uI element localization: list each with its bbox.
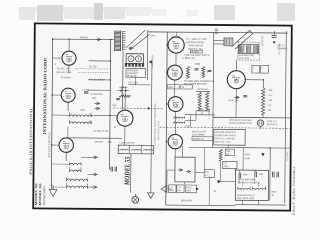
wire V1 left stub (53, 57, 62, 59)
label row b6-2 (184, 83, 207, 86)
resistor R5 voltage divider (261, 80, 265, 115)
svg-text:8MF: 8MF (243, 174, 248, 176)
capacitor C2 block (111, 167, 117, 172)
capacitor C1 (84, 92, 88, 93)
wire avc foot (185, 125, 191, 127)
wire choke mid taps (242, 182, 258, 187)
label 455KC boxed (204, 170, 214, 178)
inductor L11 voice coil (224, 38, 233, 46)
svg-text:I.F. = 456 K.C. TOP: I.F. = 456 K.C. TOP (186, 39, 207, 41)
inductor L7 antenna coil ticks (115, 31, 121, 52)
label divider taps (268, 90, 273, 112)
wire stub r3 foot (202, 108, 209, 115)
tube V2 oscillator (61, 88, 75, 102)
svg-text:PLUG 55: PLUG 55 (127, 76, 137, 78)
label above component box (119, 142, 136, 144)
label INTERNATIONAL RADIO CORPORATION vertical middle (154, 103, 157, 145)
label TRIMMER note (88, 79, 105, 82)
wire V7-V8 link (174, 112, 176, 135)
resistor R2 (202, 66, 205, 77)
wire V5 left stem (166, 44, 169, 46)
wire vertical x270.5 (269, 148, 271, 201)
capacitor C6 (243, 96, 247, 97)
svg-text:TO OSC PLATE: TO OSC PLATE (93, 130, 110, 133)
antenna symbol ground triangle bottom left (49, 185, 57, 197)
label HUM NTRL rows (239, 54, 256, 60)
label row t5-6 (184, 53, 210, 57)
svg-text:INTERNATIONAL RADIO CORPORATIO: INTERNATIONAL RADIO CORPORATION (154, 103, 157, 145)
wire stub v4 left (110, 115, 117, 117)
wire power box feed (242, 148, 244, 170)
svg-text:HUM NEUTRAL: HUM NEUTRAL (239, 54, 256, 57)
svg-text:DIAL: DIAL (151, 34, 157, 37)
svg-text:VOLTAGE READ: VOLTAGE READ (186, 41, 204, 44)
svg-text:PILOT LIGHT: PILOT LIGHT (192, 131, 207, 133)
tube V1 R.F. amp (62, 51, 76, 65)
svg-text:LT 250: LT 250 (82, 90, 90, 92)
inductor L4 (70, 169, 82, 172)
label speaker connections vertical (152, 54, 154, 67)
inductor L5 output primary (66, 178, 88, 181)
capacitor C7 electrolytic (239, 170, 241, 178)
svg-text:WITH A.C. SWITCH: WITH A.C. SWITCH (215, 137, 236, 140)
wire coil left bus links (51, 115, 70, 187)
power pack box (235, 170, 268, 200)
rectifier box B1 (175, 157, 195, 182)
wire R6 bottom (219, 161, 221, 182)
wire V9 top stem (235, 60, 237, 71)
inductor L13 choke b (252, 187, 266, 191)
wire divider bottom (262, 114, 264, 117)
svg-text:T 1490 LBS 210: T 1490 LBS 210 (119, 142, 136, 144)
node arrow under V9 (234, 96, 239, 99)
wire V2 left stub (52, 94, 61, 96)
wire dial cord diagonal 2 (129, 34, 150, 50)
wire plug stem (259, 118, 261, 129)
label 450V tiny (245, 154, 251, 160)
wire box to ground (167, 170, 175, 186)
svg-text:TO GANG: TO GANG (60, 76, 71, 79)
inductor L10 I.F. coil b (174, 121, 185, 123)
wire volume box stub (228, 145, 230, 147)
capacitor C11 small (116, 99, 120, 100)
svg-text:25M: 25M (112, 105, 116, 107)
label power box rows (238, 179, 260, 184)
node arrow tap 2 (92, 173, 97, 176)
capacitor C10 (277, 172, 279, 178)
svg-text:COIL 2700: COIL 2700 (239, 58, 250, 60)
label row t5-3 (189, 44, 204, 47)
svg-text:COIL JACK 1050: COIL JACK 1050 (237, 197, 255, 200)
wire dashed chassis mid (160, 127, 290, 128)
svg-text:100M: 100M (194, 64, 200, 66)
wire top bus drop C5 (273, 31, 275, 33)
svg-text:MAZDA 44: MAZDA 44 (193, 138, 205, 141)
label mid tiny (128, 82, 138, 84)
label box pair 2 (186, 185, 197, 193)
svg-text:SPEAKER: SPEAKER (181, 199, 193, 202)
wire V5 top stem (175, 32, 177, 37)
label AND SERIES vertical middle (157, 120, 160, 140)
label tiny candohm (196, 88, 208, 91)
wire bottom right link (204, 176, 209, 205)
svg-text:TO CH. GND: TO CH. GND (279, 42, 281, 55)
label ON VOL CON note (56, 71, 108, 74)
svg-text:6A7 G: 6A7 G (172, 36, 179, 39)
svg-text:20M: 20M (226, 151, 230, 153)
svg-text:MODEL 55: MODEL 55 (123, 156, 131, 186)
label above det line (93, 130, 110, 133)
junction dots at wire crossings (51, 38, 272, 171)
svg-text:AVC DIODE RETURN: AVC DIODE RETURN (184, 83, 207, 86)
wire vertical x131.3 (130, 154, 132, 193)
wire arrowB link (221, 181, 235, 183)
resistor R4 (205, 92, 208, 111)
label MODEL 55 big italic (123, 156, 131, 186)
inductor L12 choke a (238, 186, 250, 190)
svg-text:Schematic: Schematic (42, 185, 46, 206)
wire V1 cathode stem (68, 65, 70, 73)
wire aerial coil top link (113, 39, 115, 41)
svg-text:NTRL 250: NTRL 250 (229, 100, 240, 102)
svg-text:0.05: 0.05 (107, 142, 112, 144)
label vertical right bottom (287, 152, 289, 162)
resistor R6 (219, 149, 222, 161)
svg-text:6D6: 6D6 (168, 87, 173, 89)
label row t5-7 (182, 57, 195, 60)
svg-text:C. BIAS -3V.: C. BIAS -3V. (182, 57, 195, 60)
svg-text:L.P.: L.P. (224, 163, 228, 165)
wire left bus vertical (51, 39, 52, 189)
volume control box (214, 129, 245, 145)
svg-text:OSC: OSC (80, 110, 85, 112)
wire 455 box stem (195, 171, 204, 173)
label MODEL 55 (left bottom list) (34, 183, 38, 206)
label MODEL 66 (left bottom list) (38, 183, 42, 206)
resistor R3 (198, 92, 201, 111)
ground G1 bottom middle-left (147, 193, 154, 198)
svg-text:SPEAKER: SPEAKER (127, 69, 138, 72)
svg-text:TO SPKR: TO SPKR (287, 152, 289, 162)
wire speaker field stem (242, 200, 258, 205)
wire V2 to osc coil (67, 102, 69, 111)
tube V3 1st A.F. (59, 138, 74, 153)
svg-text:DET OSC: DET OSC (128, 82, 138, 84)
label LP box (223, 161, 237, 168)
svg-text:PAGE 8-10 INTERNATIONAL: PAGE 8-10 INTERNATIONAL (29, 106, 34, 175)
label boxed resistor values (225, 149, 234, 156)
svg-text:PART No. 7712: PART No. 7712 (215, 141, 231, 144)
label INTERNATIONAL RADIO CORP. (left column) (42, 57, 48, 134)
inductor L1 osc coil primary (69, 113, 91, 117)
label row t5-1 (186, 39, 207, 41)
label small under T1 (60, 76, 71, 79)
node arrow right of boxes (196, 187, 199, 190)
wire right section top line (189, 146, 290, 149)
inductor L9 I.F. coil a (174, 116, 185, 118)
wire B+ top bus (148, 32, 288, 33)
label small cluster left mid (90, 94, 103, 100)
wire V4 bottom stem (124, 126, 126, 145)
wire V6-V7 link (174, 80, 176, 97)
wire V4 top stem (124, 93, 126, 110)
svg-text:OUTPUT: OUTPUT (261, 35, 264, 46)
component box under V4 (118, 145, 154, 154)
svg-text:FIELD: FIELD (186, 187, 192, 189)
transformer T1 output dashed enclosure (238, 42, 260, 60)
terminal block above V4 (119, 86, 127, 92)
capacitor C5 (272, 31, 277, 38)
label SPEAKER PLUG rows (229, 119, 252, 125)
node arrow below C5 (273, 41, 276, 44)
resistor R1 (186, 66, 189, 78)
svg-text:SPEAKER FIELD: SPEAKER FIELD (237, 194, 255, 197)
svg-text:TO 1ST TR.: TO 1ST TR. (56, 67, 69, 70)
wire V1 grid stem (68, 39, 70, 51)
inductor L3 (70, 162, 82, 165)
capacitor C3 (194, 69, 198, 70)
wire chassis line right (213, 116, 290, 119)
inductor L2 osc coil secondary (69, 120, 91, 124)
svg-text:10,000 OHM TAPER: 10,000 OHM TAPER (215, 134, 236, 137)
wire middle bus vertical (166, 32, 168, 205)
label box speaker connections (126, 68, 146, 77)
label row t5-2 (186, 41, 204, 44)
svg-text:ON VOL CON: ON VOL CON (56, 71, 71, 74)
wire avc drop (190, 115, 192, 127)
wire V3 stem down (65, 152, 67, 161)
ground G2 left of box (161, 185, 171, 192)
svg-text:7660: 7660 (224, 166, 230, 168)
svg-text:2525: 2525 (271, 191, 277, 193)
loudspeaker LS1 cone (232, 30, 253, 49)
plug P2 power plug (257, 120, 263, 129)
svg-text:K.C.: K.C. (205, 175, 210, 177)
wire V9 plate right (245, 79, 263, 81)
svg-text:CANDOHM: CANDOHM (196, 88, 208, 91)
tube V7 75 2nd det (168, 97, 183, 112)
svg-text:8MF: 8MF (259, 174, 264, 176)
label V4 designator (114, 125, 116, 129)
socket X1 with pin circles (126, 54, 143, 64)
label top mid tiny (151, 34, 157, 37)
wire inner right bus (285, 31, 287, 203)
wire V3 left stub (52, 144, 59, 146)
node arrow grid return 2 (94, 107, 99, 110)
wire bottom bus right (235, 204, 286, 206)
label V1 designator (54, 62, 56, 66)
wire box stem (182, 146, 184, 157)
wire 455 feed (203, 147, 205, 169)
wire R3R4 bottom (196, 110, 210, 112)
label INTERNATIONAL (left column lower) (47, 131, 51, 157)
svg-text:WITH SET AT: WITH SET AT (189, 44, 204, 47)
label boxed pair under V6 (168, 85, 193, 89)
node arrow on aerial line (95, 38, 100, 41)
wire V7 left stub (167, 103, 169, 105)
inductor L8 antenna coil winding (122, 31, 125, 51)
node arrow filled left-bottom (218, 180, 221, 184)
wire top tick marks (213, 32, 214, 147)
wire dial cord diagonal 1 (126, 30, 145, 48)
wire V5-V6 link (175, 53, 177, 65)
wire vertical x151.5 (151, 60, 152, 193)
svg-text:110V. A.C.: 110V. A.C. (267, 120, 278, 123)
wire V6 left stub (166, 72, 169, 74)
svg-text:TO 1ST: TO 1ST (88, 65, 97, 68)
label B designator (214, 189, 216, 193)
junction cluster above V4 (117, 90, 129, 92)
label OUTPUT vertical (261, 35, 264, 46)
tube V9 42 output (227, 71, 245, 89)
label SPEAKER bottom (181, 199, 193, 202)
svg-text:6.3V 250MA: 6.3V 250MA (192, 133, 205, 136)
transformer T1 hatched core (238, 45, 258, 54)
svg-text:450 250: 450 250 (95, 142, 104, 144)
junction blob (147, 107, 149, 109)
node arrow grid return 1 (94, 102, 99, 105)
svg-text:AERIAL: AERIAL (80, 36, 90, 39)
svg-text:L.S.: L.S. (169, 187, 173, 189)
tube V4 1st detector (117, 110, 133, 126)
junction dot aerial-coil (110, 39, 112, 41)
label box LS pair (169, 185, 184, 193)
svg-text:SIGNAL: SIGNAL (191, 50, 200, 53)
label bottom right tiny (271, 191, 277, 197)
svg-text:SPEAKER PLUG AND: SPEAKER PLUG AND (229, 119, 252, 122)
wire coil feed vertical (122, 51, 125, 109)
wire IF coil to resistors (185, 119, 196, 121)
label vertical right top (279, 42, 281, 55)
wire V8 bottom stem (174, 149, 176, 157)
node arrow socket pointer (149, 60, 152, 63)
label 8MF (243, 174, 264, 177)
label below det line rows (95, 142, 113, 144)
svg-text:L.S.: L.S. (177, 187, 181, 189)
wire interstage row 1 (88, 60, 110, 62)
label 1ST IF stack (277, 45, 288, 50)
svg-text:60 CYCLE: 60 CYCLE (267, 124, 278, 126)
wire interstage row 2 (88, 79, 110, 81)
node arrow filled down (261, 153, 264, 156)
svg-text:CABLE CONNECTOR: CABLE CONNECTOR (229, 122, 252, 125)
wire aerial input line (53, 38, 114, 41)
svg-text:COND 8MF 450V: COND 8MF 450V (238, 179, 256, 181)
node arrow tap 1 (92, 156, 97, 159)
label SPEAKER FIELD (237, 194, 255, 200)
wire resistor feed (195, 111, 197, 120)
label AERIAL (80, 36, 90, 39)
capacitor C4 (207, 70, 211, 71)
label row t5-4 (188, 49, 203, 51)
wire detector output line (66, 137, 121, 139)
wire bottom connect (166, 204, 235, 207)
svg-text:VOLUME CONTROL: VOLUME CONTROL (215, 132, 237, 134)
label 110V (267, 120, 278, 126)
label rows right of V8 (192, 131, 213, 140)
node arrow tap 3 (92, 186, 97, 189)
svg-text:C.H.: C.H. (268, 95, 273, 97)
node arrow in box 1 (178, 169, 183, 172)
capacitor C8 electrolytic (255, 170, 257, 177)
capacitor C9 (272, 172, 274, 178)
svg-text:INTERNATIONAL: INTERNATIONAL (47, 131, 51, 157)
node arrow in box 2 (186, 170, 191, 173)
wire R3R4 top (196, 90, 210, 92)
svg-text:SPKR CONN: SPKR CONN (152, 54, 154, 67)
label NTRL (229, 100, 240, 102)
label osc coil (80, 110, 85, 112)
wire V9 bottom stub (235, 89, 237, 118)
label page header PAGE 8-10 INTERNATIONAL (left margin) (29, 106, 34, 175)
tube V5 6A7 (168, 37, 184, 53)
label box pair right (252, 65, 269, 73)
label row boxed t5 (190, 50, 202, 53)
label TO 1ST trimmer note (56, 67, 108, 70)
label 6A7 (172, 36, 179, 39)
resistor R7 small top (119, 95, 130, 97)
wire cap bottoms (239, 177, 255, 183)
wire osc bottom connect (67, 127, 69, 138)
wire dashed chassis line left (113, 107, 163, 109)
lamp P1 pilot light (132, 194, 139, 203)
tube V8 43 output (168, 134, 183, 149)
wire second bus vertical (110, 40, 111, 170)
wire speaker stems (214, 40, 224, 44)
wire T3 top stem (65, 127, 67, 138)
wire vertical x147 (146, 30, 148, 80)
wire interstage row 3 (88, 89, 110, 91)
wire coil stubs (66, 157, 93, 187)
svg-text:8 MF: 8 MF (245, 158, 251, 160)
node arrow pointing left at coil (129, 47, 134, 50)
inductor L6 output secondary (66, 185, 88, 188)
terminal strip TS1 (125, 63, 144, 67)
terminal ticks top right (215, 29, 218, 34)
svg-text:AND SERIES 55-66: AND SERIES 55-66 (157, 120, 160, 140)
wire avc bus (185, 114, 215, 116)
label John F. Rider, Publisher (right margin) (292, 165, 297, 215)
label C1 value (82, 90, 90, 92)
svg-text:INTERNATIONAL RADIO CORP.: INTERNATIONAL RADIO CORP. (42, 57, 48, 134)
label tiny near V4 (112, 105, 116, 107)
label row b6-1 (184, 81, 215, 83)
label TO 1ST note (88, 65, 97, 68)
wire under socket (128, 77, 150, 85)
svg-text:450V: 450V (245, 154, 251, 156)
svg-text:B: B (114, 125, 116, 129)
svg-text:B: B (214, 189, 216, 193)
svg-text:DRY ELECTROLYTIC: DRY ELECTROLYTIC (238, 182, 260, 184)
tube V6 6D6 I.F. (167, 65, 182, 80)
svg-text:LT 250 OSC: LT 250 OSC (90, 94, 103, 96)
label Schematic (left bottom list) (42, 185, 46, 206)
wire osc coil to bus (91, 114, 110, 116)
wire box bottom stem (183, 182, 185, 185)
label 100M tiny (194, 64, 208, 75)
